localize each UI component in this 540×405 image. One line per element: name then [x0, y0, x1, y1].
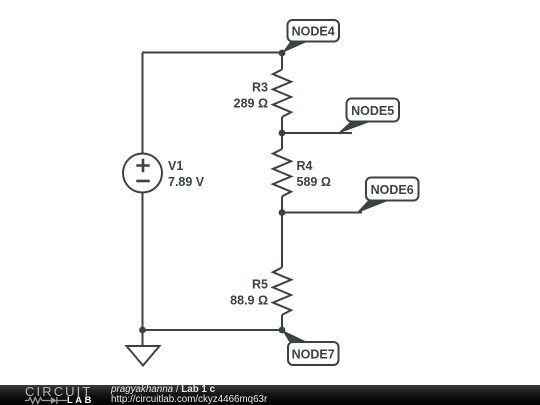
svg-text:589 Ω: 589 Ω: [297, 175, 331, 189]
wire R4 top stub: [281, 133, 283, 149]
CircuitLab logo wordmark: [25, 384, 92, 399]
node C junction dot: [279, 209, 286, 216]
footer url line: [111, 394, 267, 405]
wire left vertical lower: [142, 193, 144, 331]
svg-text:V1: V1: [168, 159, 183, 173]
node B junction dot: [279, 130, 286, 137]
wire R4 to R5: [281, 213, 283, 268]
node NODE4 flag: [282, 20, 339, 53]
svg-text:88.9 Ω: 88.9 Ω: [230, 294, 268, 308]
svg-text:NODE6: NODE6: [371, 183, 414, 197]
wire node6 leader: [282, 212, 362, 214]
CircuitLab logo squiggle: [25, 396, 67, 405]
wire R4 bottom stub: [281, 196, 283, 212]
resistor R4: [273, 149, 291, 196]
svg-text:289 Ω: 289 Ω: [234, 96, 268, 110]
label V1 value: [168, 159, 205, 189]
resistor R3: [273, 70, 291, 118]
node NODE7 flag: [282, 330, 339, 365]
wire top horizontal: [142, 52, 282, 54]
svg-text:R5: R5: [252, 278, 268, 292]
svg-text:7.89 V: 7.89 V: [168, 175, 205, 189]
svg-text:R4: R4: [297, 159, 313, 173]
svg-text:NODE4: NODE4: [292, 24, 335, 38]
label R4 value: [297, 159, 331, 189]
ground: [127, 330, 160, 366]
wire R5 bottom stub: [281, 315, 283, 330]
footer bar: [0, 385, 540, 405]
node E junction dot: [139, 327, 146, 334]
wire left vertical upper: [142, 53, 144, 154]
label R5 value: [230, 278, 268, 308]
node A junction dot: [279, 50, 286, 57]
label R3 value: [234, 80, 268, 110]
voltage source V1: [123, 154, 162, 193]
node NODE6 flag: [356, 178, 419, 214]
wire R3 bottom stub: [281, 117, 283, 133]
node D junction dot: [279, 327, 286, 334]
footer credit line: [111, 384, 215, 395]
wire bottom horizontal: [143, 329, 283, 331]
wire R3 top stub: [281, 53, 283, 70]
node NODE5 flag: [337, 99, 399, 135]
wire node5 leader: [282, 132, 352, 134]
svg-text:R3: R3: [252, 80, 268, 94]
resistor R5: [273, 268, 291, 315]
svg-text:NODE5: NODE5: [351, 104, 394, 118]
svg-text:NODE7: NODE7: [292, 348, 335, 362]
